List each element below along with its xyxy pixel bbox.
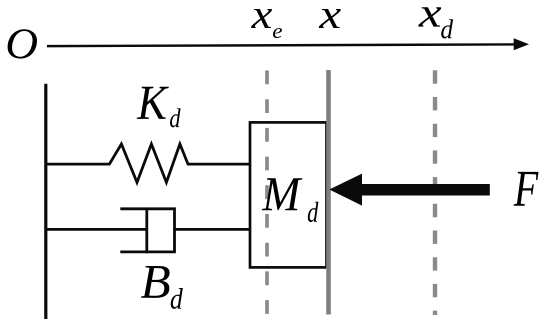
label B_d <box>141 266 170 298</box>
label x_d <box>418 7 441 26</box>
subscript d of x_d <box>441 19 453 38</box>
mass Md box <box>250 122 327 267</box>
label x <box>319 9 341 28</box>
label F <box>514 172 539 206</box>
damper Bd left rod <box>47 228 147 231</box>
label M_d <box>262 178 303 210</box>
subscript d of B_d <box>171 288 183 309</box>
damper Bd cylinder <box>120 209 174 252</box>
spring Kd <box>47 144 250 182</box>
wall <box>44 84 47 319</box>
label K_d <box>137 87 169 119</box>
subscript e <box>273 28 282 38</box>
dashed reference line x_d <box>433 70 437 315</box>
subscript d of K_d <box>170 108 181 127</box>
damper Bd right rod <box>175 228 251 231</box>
x-axis line <box>47 44 516 46</box>
subscript d of M_d <box>308 202 319 222</box>
damper Bd piston plate <box>145 208 148 254</box>
label x_e <box>251 9 272 28</box>
label O <box>8 29 37 58</box>
force arrow F <box>329 174 490 206</box>
dashed reference line x_e <box>265 71 269 315</box>
x-axis arrowhead <box>514 38 529 50</box>
solid gray reference line x <box>326 70 331 315</box>
